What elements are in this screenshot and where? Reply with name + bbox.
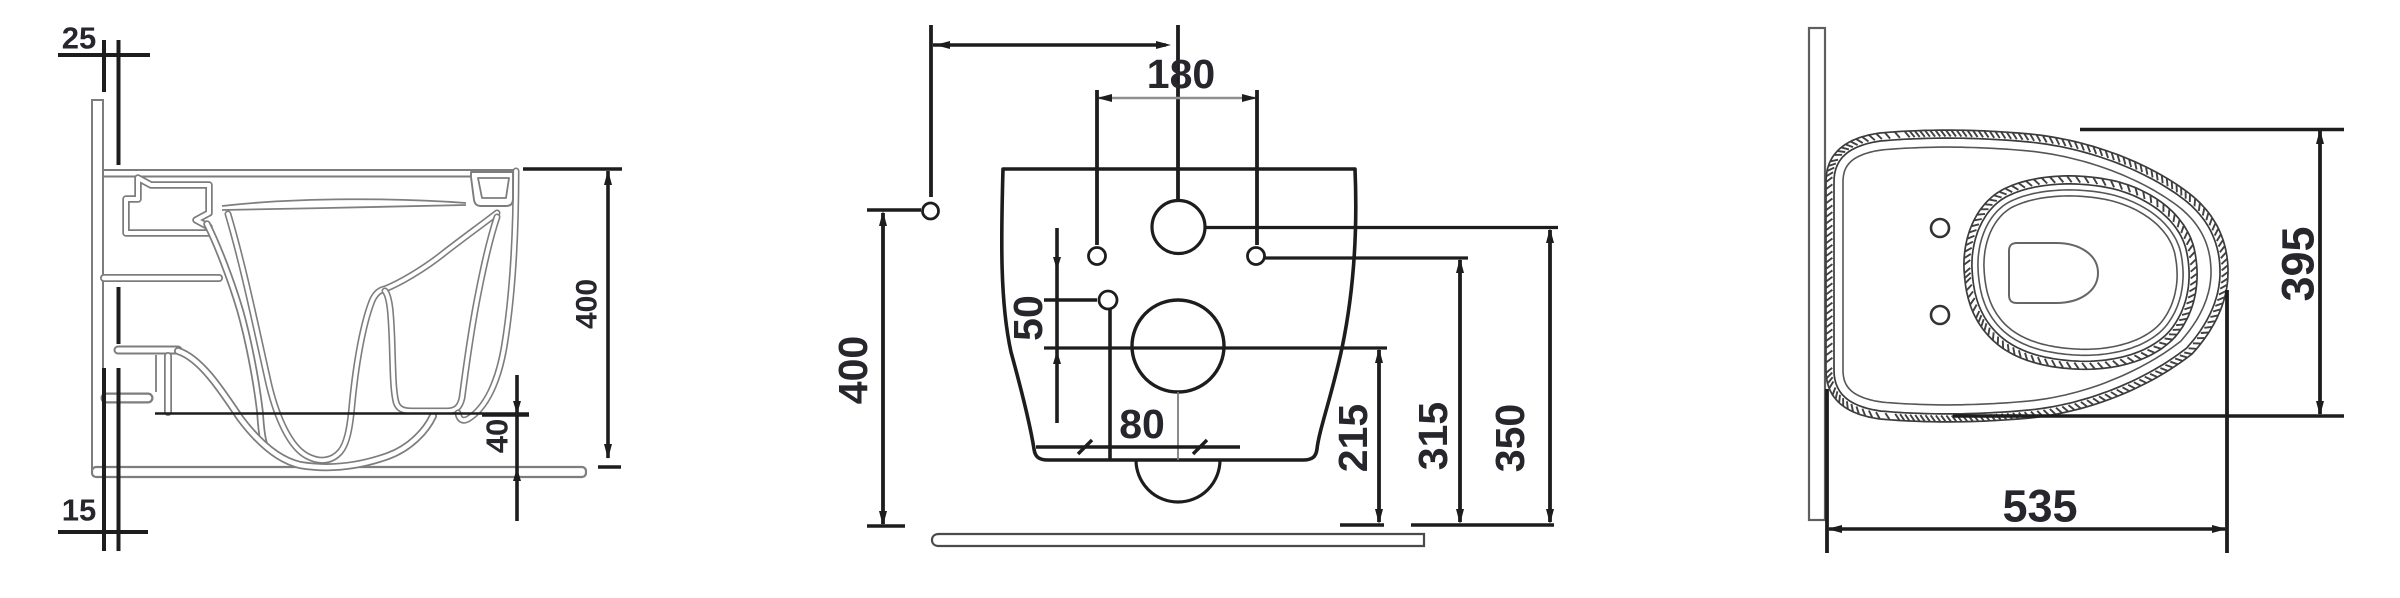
dim 180 line: [1097, 97, 1257, 99]
lower wall tongue: [106, 393, 148, 404]
svg-text:400: 400: [830, 336, 876, 404]
fixing hole right: [1248, 248, 1265, 265]
mid fixing bar: [104, 274, 219, 282]
svg-text:315: 315: [1410, 402, 1456, 470]
dim 215 arrow bottom: [1375, 509, 1383, 524]
dim 50 arrow down: [1053, 257, 1061, 270]
outlet stub vertical: [164, 356, 172, 412]
dim 350 line: [1548, 230, 1552, 522]
dim 350 ext: [1206, 226, 1558, 229]
seat opening outer edge: [1964, 176, 2197, 369]
lower bracket vertical: [155, 355, 157, 392]
svg-text:535: 535: [2002, 481, 2077, 532]
flush channel back wall: [207, 224, 264, 443]
bowl outer rim hatched band: [1826, 131, 2227, 422]
dim 40 arrow up: [513, 468, 521, 481]
dim 400 arrow top: [879, 211, 887, 226]
toilet top surface line: [104, 169, 516, 171]
toilet top inner line: [104, 176, 471, 178]
bowl rim band inner edge: [1834, 138, 2220, 414]
dim 315 bottom tick: [1411, 523, 1554, 526]
dim 25 tick a: [102, 40, 106, 92]
dim 180 arrow left: [1097, 94, 1112, 102]
dim 535 line: [1829, 527, 2225, 531]
outer rear wall: [458, 171, 516, 420]
dim 315 arrow bottom: [1456, 509, 1464, 524]
svg-text:50: 50: [1005, 295, 1051, 341]
bowl under-shell: [178, 351, 433, 467]
lower fixing bar: [118, 346, 178, 355]
svg-text:350: 350: [1487, 404, 1533, 472]
dim 350 arrow top: [1546, 228, 1554, 243]
drain hole: [1132, 300, 1224, 392]
dim 395 arrow bottom: [2316, 401, 2324, 416]
svg-text:400: 400: [571, 279, 604, 329]
svg-text:215: 215: [1330, 404, 1376, 472]
outlet drain arc: [1136, 460, 1220, 502]
dim 400 arrow bottom: [879, 511, 887, 526]
wall ref vertical left: [929, 25, 933, 197]
wall panel (left view): [92, 100, 103, 469]
dim 215 bottom tick: [1340, 523, 1384, 526]
dim 50 arrow up: [1053, 351, 1061, 364]
dim 180 ext right: [1255, 90, 1259, 245]
wall panel (right view): [1809, 28, 1825, 520]
extension line hole axis bottom: [117, 368, 121, 551]
rim surface line lower: [222, 205, 466, 210]
flush water hole: [1152, 201, 1205, 254]
drain centerline horizontal: [1044, 346, 1387, 349]
extension line hole axis mid: [117, 287, 121, 344]
rim surface line upper: [222, 199, 466, 206]
dim 25 line: [58, 53, 150, 57]
dim 40 top tick: [482, 413, 529, 417]
fixing hole left: [1089, 248, 1106, 265]
rear mounting bracket: [126, 178, 209, 233]
seat hinge hole bottom: [1931, 306, 1949, 324]
trap channel: [385, 217, 497, 411]
flush hole plan: [2009, 243, 2098, 303]
dim 400 top tick: [867, 208, 921, 211]
dim 535 arrow right: [2212, 525, 2227, 533]
svg-text:15: 15: [62, 493, 96, 528]
centerline drain to bottom: [1177, 392, 1179, 460]
dim 395 top tick: [2080, 128, 2344, 132]
seat opening band inner edge: [1972, 184, 2189, 361]
bowl rim outer edge: [1826, 130, 2228, 422]
dim 180 ext left: [1095, 90, 1099, 245]
centerline top: [1176, 25, 1180, 200]
small hole lower: [1099, 291, 1117, 309]
dim 315 arrow top: [1456, 258, 1464, 273]
rim box outer: [471, 172, 513, 206]
top offset arrow right: [1156, 41, 1171, 49]
extension line left bottom: [102, 368, 106, 551]
svg-text:40: 40: [480, 419, 515, 453]
floor slab (left view): [92, 467, 586, 477]
dim 400 bottom tick: [867, 524, 905, 527]
dim 535 ext right: [2225, 290, 2229, 553]
dim 40 line: [515, 375, 519, 521]
pan body outline: [1002, 169, 1356, 460]
dim 395 bottom tick: [1953, 414, 2344, 418]
dim 535 arrow left: [1827, 525, 1842, 533]
extension line hole axis top: [117, 40, 121, 165]
outlet channel bottom line: [155, 412, 529, 415]
dim 350 arrow bottom: [1546, 509, 1554, 524]
dim 315 ext: [1264, 256, 1468, 259]
seat opening inner contour 2: [1984, 196, 2177, 349]
top offset arrow left: [935, 41, 950, 49]
dim 315 line: [1458, 260, 1462, 522]
svg-text:180: 180: [1147, 51, 1215, 97]
dim 50 tick: [1044, 298, 1097, 301]
dim 400 line: [881, 213, 885, 524]
dim 50 line: [1055, 228, 1059, 423]
dim 535 ext left: [1825, 389, 1829, 553]
dim 80 line: [1036, 445, 1240, 449]
small hole axis vertical: [1108, 309, 1112, 460]
inner bowl profile: [228, 213, 497, 460]
svg-text:25: 25: [62, 21, 96, 56]
rim box inner: [478, 178, 509, 198]
wall ref circle: [923, 203, 939, 219]
dim 395 line: [2318, 131, 2322, 414]
dim 80 slash left: [1078, 440, 1092, 454]
dim 400 left-view top tick: [523, 167, 622, 171]
dim 15 line: [58, 530, 148, 534]
base plate (middle view): [932, 534, 1424, 546]
bowl rim inner edge: [1843, 147, 2211, 405]
seat hinge hole top: [1931, 219, 1949, 237]
svg-text:395: 395: [2273, 226, 2324, 301]
dim 180 arrow right: [1242, 94, 1257, 102]
dim 215 arrow top: [1375, 348, 1383, 363]
dim 395 arrow top: [2316, 129, 2324, 144]
dim 40 arrow down: [513, 401, 521, 414]
dim 400 lv arrow bottom: [604, 444, 612, 459]
svg-text:80: 80: [1119, 401, 1165, 447]
dim 400 lv arrow top: [604, 170, 612, 185]
dim 80 slash right: [1193, 440, 1207, 454]
seat opening inner contour 1: [1978, 190, 2183, 355]
dim 400 lv bottom tick: [598, 465, 621, 469]
seat opening hatched band: [1964, 176, 2196, 369]
dim 400 left-view line: [606, 171, 610, 458]
dim 215 line: [1377, 350, 1381, 522]
top offset dim line: [933, 43, 1166, 46]
